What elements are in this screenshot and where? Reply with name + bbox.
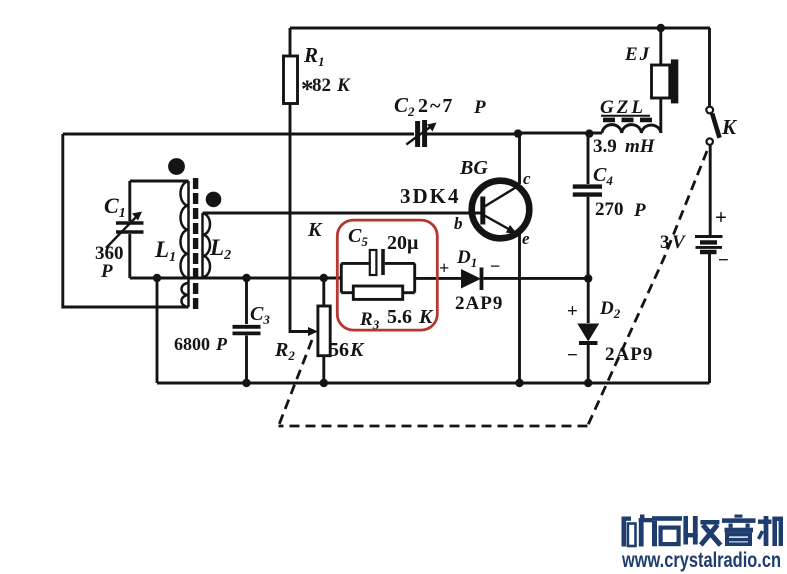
svg-text:K: K (721, 115, 738, 139)
svg-text:D2: D2 (599, 298, 621, 321)
svg-text:www.crystalradio.cn: www.crystalradio.cn (621, 549, 781, 572)
svg-text:3.9: 3.9 (593, 136, 617, 157)
svg-text:−: − (567, 345, 578, 366)
svg-text:C4: C4 (593, 164, 613, 188)
svg-text:−: − (490, 256, 500, 276)
svg-text:GZL: GZL (600, 97, 646, 118)
svg-text:+: + (567, 301, 578, 322)
svg-text:2AP9: 2AP9 (605, 344, 653, 365)
svg-text:P: P (633, 200, 646, 221)
svg-text:K: K (336, 75, 351, 96)
svg-text:c: c (523, 169, 531, 188)
svg-text:−: − (718, 250, 729, 271)
svg-text:b: b (454, 214, 463, 233)
svg-text:D1: D1 (456, 247, 477, 270)
svg-text:R3: R3 (359, 309, 380, 332)
svg-text:C5: C5 (348, 225, 368, 249)
svg-text:EJ: EJ (624, 44, 651, 65)
svg-text:L1: L1 (154, 237, 176, 265)
svg-text:C3: C3 (250, 303, 270, 327)
svg-text:R2: R2 (274, 339, 295, 363)
svg-text:P: P (215, 334, 228, 354)
svg-text:20μ: 20μ (387, 232, 419, 254)
svg-text:C1: C1 (104, 193, 126, 221)
svg-text:R1: R1 (303, 43, 325, 69)
svg-text:6800: 6800 (174, 334, 210, 354)
svg-text:P: P (100, 261, 113, 282)
svg-text:BG: BG (459, 157, 488, 179)
svg-text:2~7: 2~7 (418, 95, 454, 117)
svg-text:L2: L2 (209, 235, 231, 263)
svg-text:e: e (522, 229, 530, 248)
svg-text:mH: mH (625, 136, 656, 157)
svg-text:82: 82 (312, 75, 331, 96)
svg-text:V: V (672, 232, 686, 253)
svg-text:+: + (715, 205, 727, 229)
svg-text:P: P (473, 97, 486, 118)
svg-text:2AP9: 2AP9 (455, 293, 503, 314)
svg-text:K: K (349, 339, 365, 361)
svg-text:56: 56 (329, 339, 349, 361)
svg-text:5.6: 5.6 (387, 306, 412, 328)
svg-text:3: 3 (660, 232, 670, 253)
svg-text:3DK4: 3DK4 (400, 184, 461, 208)
svg-text:+: + (439, 258, 449, 278)
svg-text:K: K (307, 219, 323, 241)
svg-text:C2: C2 (394, 93, 415, 119)
svg-text:270: 270 (595, 199, 624, 220)
